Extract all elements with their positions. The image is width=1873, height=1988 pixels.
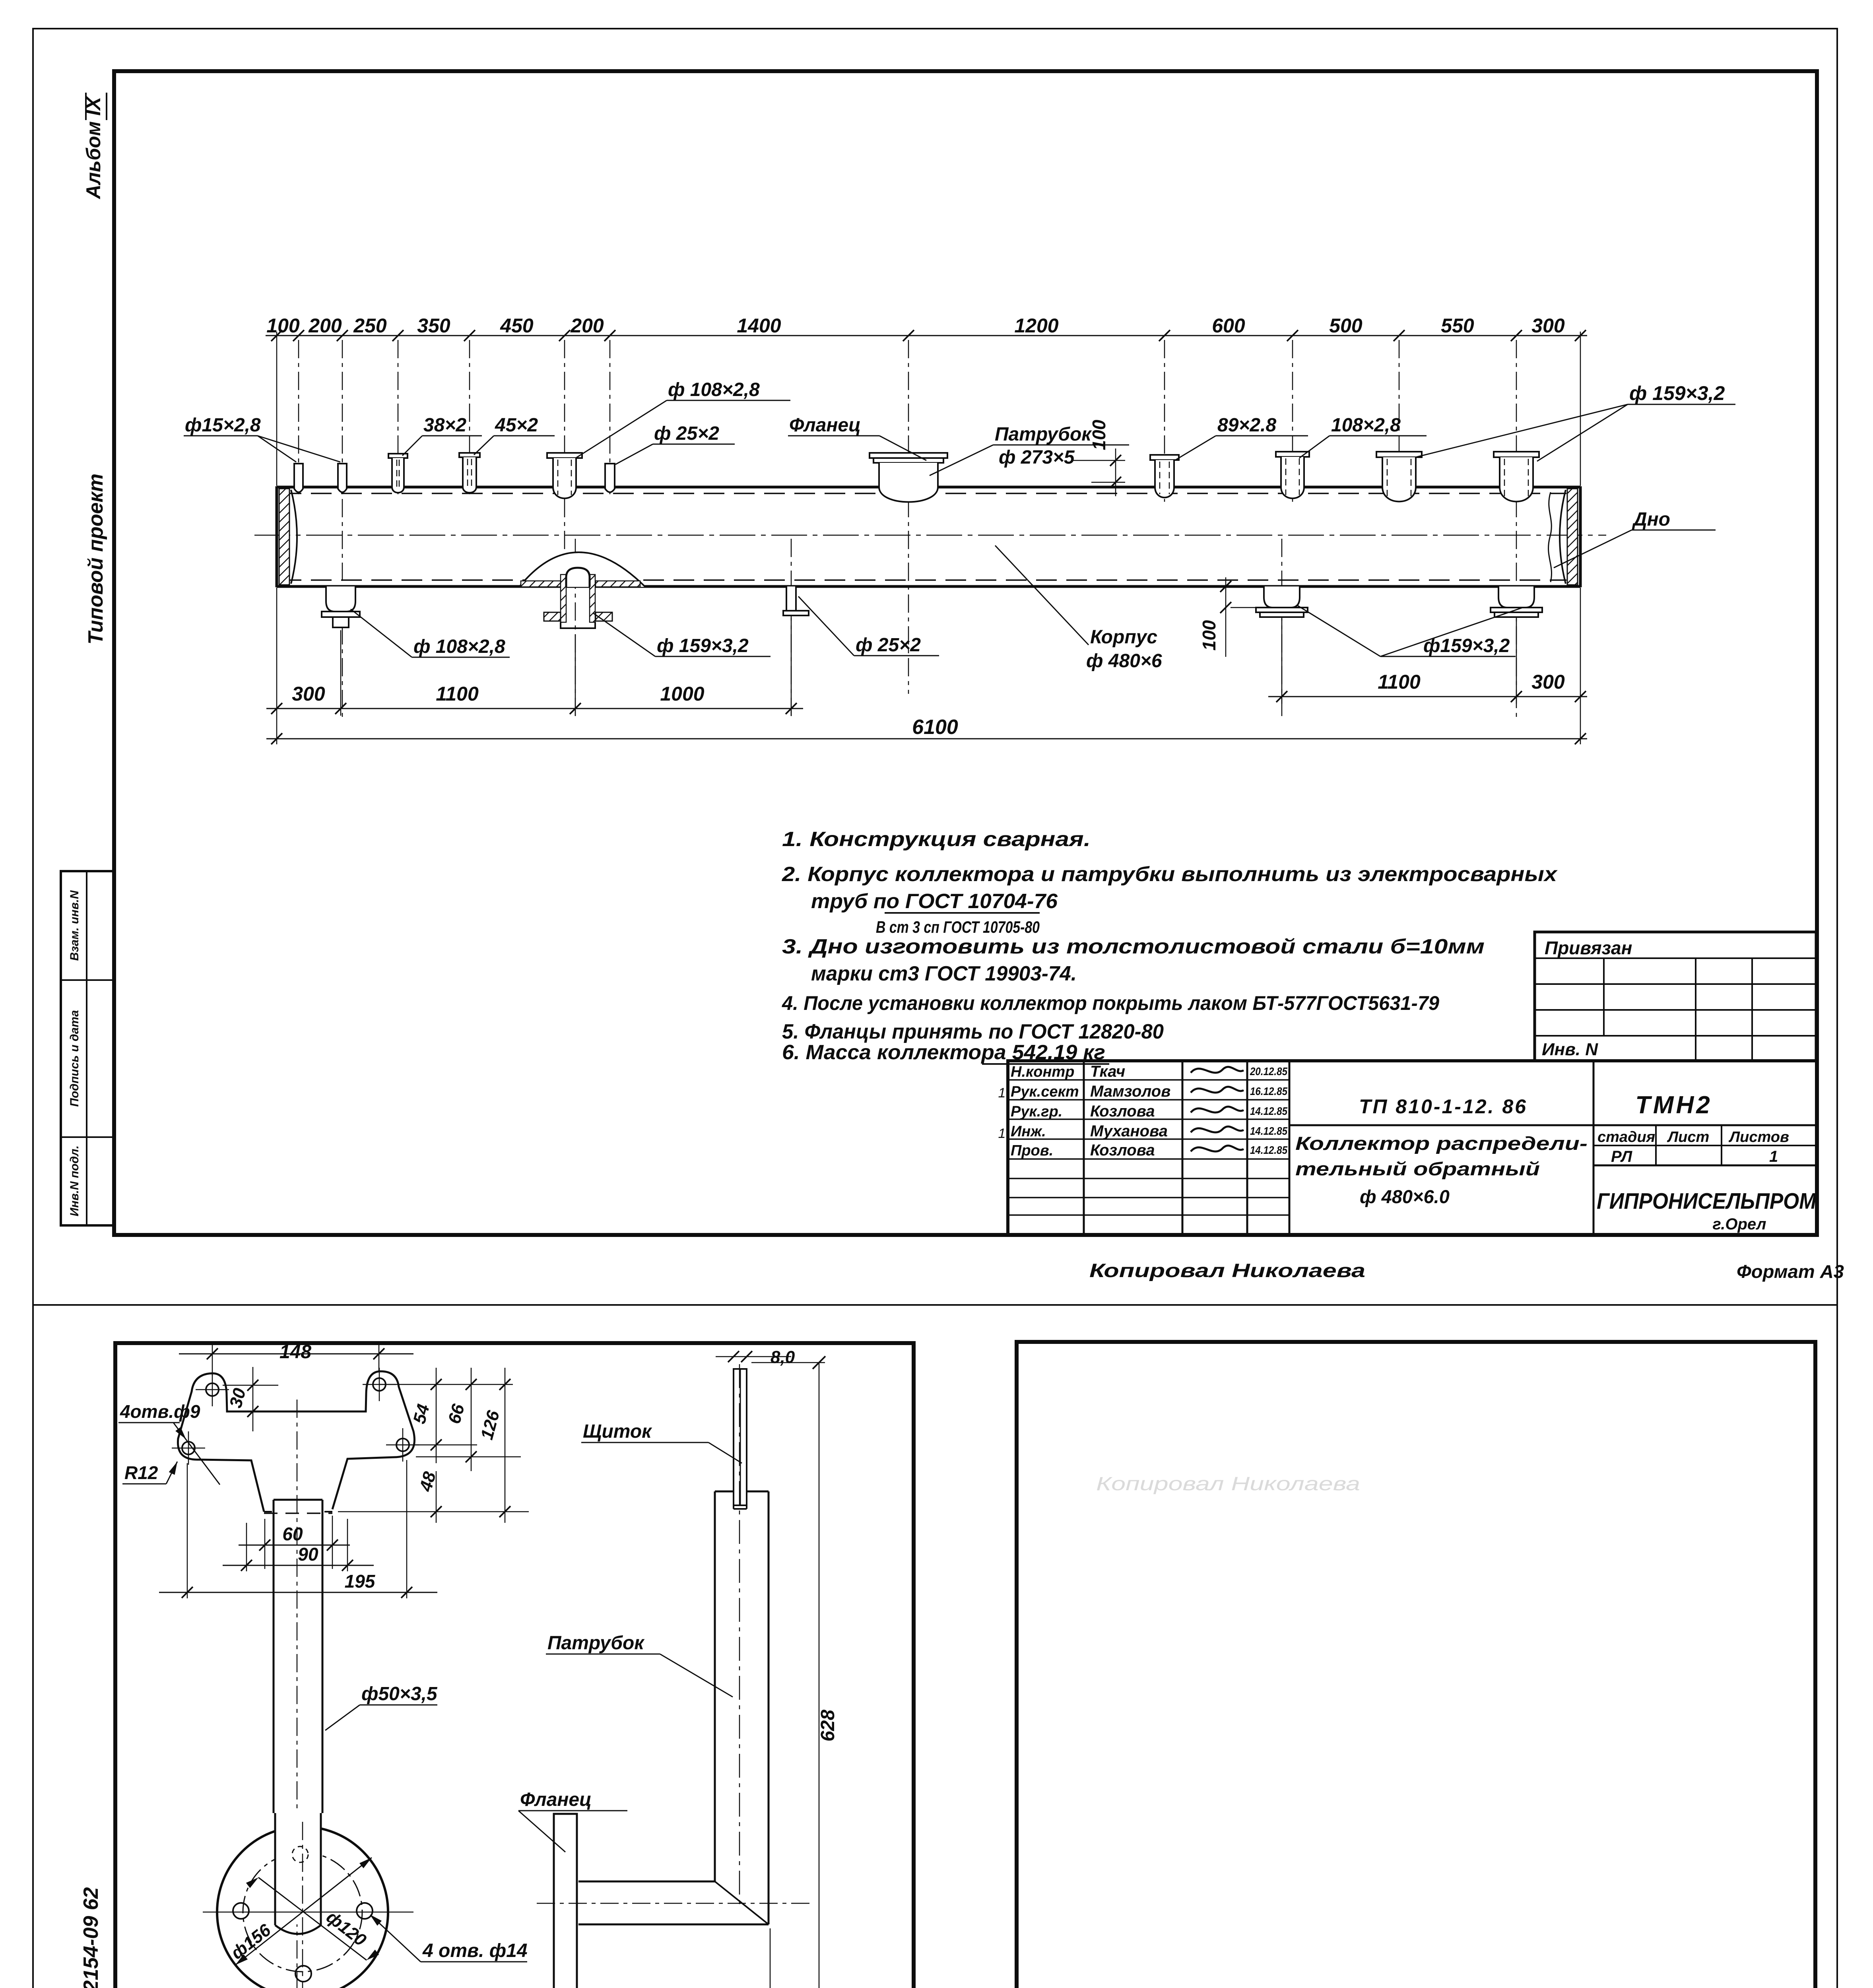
nozzle f159x3.2 bottom right #1 <box>1256 586 1308 617</box>
svg-text:Н.контр: Н.контр <box>1011 1064 1074 1080</box>
svg-text:1000: 1000 <box>660 683 704 705</box>
label f50x3.5 <box>325 1683 438 1730</box>
svg-text:200: 200 <box>308 315 342 337</box>
svg-text:100: 100 <box>266 315 300 337</box>
title block top sheet <box>1008 1061 1817 1235</box>
label f159x3.2 top <box>1415 382 1735 461</box>
svg-text:Привязан: Привязан <box>1545 938 1632 958</box>
svg-text:ф50×3,5: ф50×3,5 <box>361 1683 438 1705</box>
svg-text:89×2.8: 89×2.8 <box>1217 415 1276 436</box>
footer top sheet <box>1089 1260 1844 1282</box>
label 38x2 <box>402 415 482 456</box>
svg-text:ф 273×5: ф 273×5 <box>999 447 1075 468</box>
collector pipe body f480x6 <box>277 487 1580 586</box>
svg-text:1200: 1200 <box>1014 315 1058 337</box>
patrubok horizontal channel <box>578 1881 769 1924</box>
label 108x2.8 <box>1299 415 1427 458</box>
svg-text:195: 195 <box>345 1571 376 1592</box>
svg-text:300: 300 <box>292 683 325 705</box>
dimension 30 <box>223 1367 278 1431</box>
tube f50x3.5 <box>274 1500 322 1813</box>
svg-text:14.12.85: 14.12.85 <box>1250 1105 1287 1117</box>
svg-text:Козлова: Козлова <box>1090 1103 1155 1120</box>
svg-text:3. Дно изготовить из толсто: 3. Дно изготовить из толстолистовой стал… <box>782 935 1485 958</box>
svg-text:Инж.: Инж. <box>1011 1123 1046 1140</box>
svg-text:108×2,8: 108×2,8 <box>1331 415 1401 436</box>
svg-text:ф 480×6: ф 480×6 <box>1086 650 1162 672</box>
label Patrubok side <box>546 1633 733 1697</box>
shield plate (schitok) <box>734 1369 747 1505</box>
flange bolt holes f14 <box>233 1846 373 1982</box>
svg-text:R12: R12 <box>124 1462 158 1483</box>
svg-text:600: 600 <box>1212 315 1245 337</box>
svg-text:Фланец: Фланец <box>789 415 861 436</box>
svg-text:500: 500 <box>1329 315 1363 337</box>
svg-text:ф 480×6.0: ф 480×6.0 <box>1360 1186 1450 1207</box>
title block document number <box>1359 1095 1528 1118</box>
bracket plate outline <box>178 1371 414 1512</box>
svg-text:Дно: Дно <box>1632 509 1670 530</box>
svg-text:20.12.85: 20.12.85 <box>1250 1065 1287 1077</box>
svg-text:ф 159×3,2: ф 159×3,2 <box>1629 382 1725 404</box>
svg-text:Взам. инв.N: Взам. инв.N <box>68 890 81 961</box>
label 4otv f14 <box>370 1914 528 1962</box>
svg-text:Рук.гр.: Рук.гр. <box>1011 1103 1062 1120</box>
patrubok vertical channel <box>715 1491 769 1924</box>
svg-text:250: 250 <box>353 315 387 337</box>
strip label Podpis i data <box>68 1010 81 1107</box>
margin label Album IX <box>82 93 107 200</box>
strip label Vzam inv N <box>68 890 81 961</box>
dimension 195 <box>159 1460 437 1598</box>
svg-text:Муханова: Муханова <box>1090 1122 1168 1140</box>
svg-text:8,0: 8,0 <box>771 1347 795 1367</box>
svg-text:Копировал Николаева: Копировал Николаева <box>1096 1474 1360 1495</box>
nozzle f159x3.2 top #2 <box>1494 452 1539 501</box>
flange diagonal f156 <box>227 1858 372 1965</box>
svg-text:Рук.сект: Рук.сект <box>1011 1083 1079 1100</box>
nozzle f25x2 bottom <box>783 586 809 615</box>
svg-text:Ткач: Ткач <box>1090 1063 1125 1080</box>
svg-text:Щиток: Щиток <box>583 1421 652 1442</box>
svg-text:350: 350 <box>417 315 450 337</box>
svg-text:Корпус: Корпус <box>1090 627 1157 648</box>
svg-text:4. После установки коллектор: 4. После установки коллектор покрыть лак… <box>782 992 1439 1014</box>
top sheet frame A3 <box>114 71 1817 1235</box>
dimension 628 <box>751 1356 838 1988</box>
label Korpus f480x6 <box>995 546 1162 672</box>
flange bolt circle <box>243 1852 362 1972</box>
dimension 275 <box>548 1928 791 1988</box>
top dimension numbers <box>266 315 1565 337</box>
bottom left dimension chain <box>266 618 803 716</box>
pipe right dished end (dno) <box>1549 486 1580 587</box>
svg-text:марки ст3 ГОСТ 19903-74.: марки ст3 ГОСТ 19903-74. <box>811 962 1077 985</box>
technical notes <box>782 828 1558 1064</box>
label Schitok <box>581 1421 742 1463</box>
svg-text:ф 108×2,8: ф 108×2,8 <box>668 379 760 400</box>
svg-text:14.12.85: 14.12.85 <box>1250 1144 1287 1156</box>
svg-text:Патрубок: Патрубок <box>547 1633 645 1654</box>
margin code 2154-09 62 <box>80 1887 103 1988</box>
svg-text:Копировал Николаева: Копировал Николаева <box>1089 1260 1365 1281</box>
label 45x2 <box>474 415 555 455</box>
svg-text:1: 1 <box>998 1126 1006 1141</box>
svg-text:ф 25×2: ф 25×2 <box>654 423 719 444</box>
nozzle 38x2 <box>388 454 408 493</box>
svg-text:г.Орел: г.Орел <box>1712 1215 1766 1233</box>
dimension 60 <box>239 1516 350 1569</box>
svg-text:200: 200 <box>570 315 604 337</box>
svg-text:Подпись и дата: Подпись и дата <box>68 1010 81 1107</box>
nozzle 108x2.8 <box>1276 452 1309 498</box>
margin label Tipovoy proekt <box>84 474 107 645</box>
label f25x2 top <box>615 423 735 464</box>
nozzle f108x2.8 top <box>547 453 582 498</box>
svg-text:РЛ: РЛ <box>1611 1148 1633 1165</box>
title block stage row <box>1597 1129 1789 1165</box>
svg-text:1. Конструкция сварная.: 1. Конструкция сварная. <box>782 828 1091 851</box>
label f108x2.8 bottom <box>351 609 510 657</box>
svg-text:100: 100 <box>1199 620 1219 650</box>
title block code TMH2 <box>1635 1091 1712 1119</box>
svg-text:90: 90 <box>298 1544 318 1565</box>
label Flanec side <box>518 1789 627 1852</box>
svg-text:1400: 1400 <box>737 315 781 337</box>
title block organization <box>1597 1188 1817 1233</box>
svg-text:ТП 810-1-12. 86: ТП 810-1-12. 86 <box>1359 1095 1528 1118</box>
label 4otv f9 <box>118 1401 220 1485</box>
vertical dimension 100 bottom <box>1199 577 1262 657</box>
flange disc <box>217 1827 388 1988</box>
svg-text:2154-09 62: 2154-09 62 <box>80 1887 103 1988</box>
svg-text:450: 450 <box>500 315 534 337</box>
svg-text:4 отв. ф14: 4 отв. ф14 <box>422 1940 528 1961</box>
faint copy note <box>1096 1474 1360 1495</box>
nozzle 89x2.8 <box>1150 455 1179 497</box>
dimension 8.0 <box>716 1347 795 1367</box>
label f25x2 bottom <box>798 596 939 656</box>
svg-text:14.12.85: 14.12.85 <box>1250 1125 1287 1137</box>
svg-text:100: 100 <box>1089 419 1109 450</box>
svg-text:16.12.85: 16.12.85 <box>1250 1085 1287 1097</box>
bracket centerline vertical <box>297 1400 298 1988</box>
bottom right dimension chain <box>1268 619 1587 704</box>
label f15x2.8 <box>184 415 340 462</box>
svg-text:Козлова: Козлова <box>1090 1142 1155 1159</box>
svg-text:ГИПРОНИСЕЛЬПРОМ: ГИПРОНИСЕЛЬПРОМ <box>1597 1188 1817 1214</box>
nozzle f159x3.2 bottom right #2 <box>1491 586 1542 617</box>
vertical dimension 100 top <box>1073 419 1125 496</box>
svg-text:тельный обратный: тельный обратный <box>1295 1158 1540 1179</box>
bracket slot and hidden line <box>264 1512 332 1513</box>
svg-text:550: 550 <box>1441 315 1474 337</box>
pipe left dished end (dno) <box>277 486 297 587</box>
svg-text:ф 108×2,8: ф 108×2,8 <box>413 636 505 657</box>
svg-text:300: 300 <box>1531 671 1565 693</box>
svg-text:2. Корпус коллектора и патрубк: 2. Корпус коллектора и патрубки выполнит… <box>782 863 1558 886</box>
svg-text:ф 25×2: ф 25×2 <box>856 635 921 656</box>
nozzle f15x2.8 #1 <box>294 464 303 492</box>
nozzle f15x2.8 #2 <box>338 464 347 492</box>
label f159x3.2 bottom right <box>1297 605 1523 656</box>
strip label Inv N podl <box>68 1145 81 1216</box>
svg-text:38×2: 38×2 <box>423 415 466 436</box>
svg-text:Инв.N подл.: Инв.N подл. <box>68 1145 81 1216</box>
svg-text:148: 148 <box>279 1342 311 1363</box>
privyazan table top sheet <box>1535 932 1816 1061</box>
nozzle f159x3.2 bottom cut-through <box>519 552 645 628</box>
svg-text:628: 628 <box>817 1710 838 1741</box>
svg-text:ф15×2,8: ф15×2,8 <box>185 415 261 436</box>
svg-text:6100: 6100 <box>912 716 958 739</box>
tube over flange <box>275 1813 321 1934</box>
svg-text:1100: 1100 <box>1378 671 1421 693</box>
svg-text:Типовой проект: Типовой проект <box>84 474 107 645</box>
svg-text:1: 1 <box>998 1085 1006 1101</box>
title block signatures top sheet <box>998 1063 1288 1159</box>
pipe horizontal centerline <box>254 535 1606 536</box>
top dimension chain line <box>266 330 1587 486</box>
nozzle f25x2 top <box>605 464 615 492</box>
nozzle f159x3.2 top #1 <box>1376 452 1422 501</box>
title block drawing name <box>1295 1133 1588 1207</box>
dimension 148 <box>179 1342 413 1376</box>
left strip table top sheet <box>61 871 113 1225</box>
nozzle centerlines <box>299 340 1516 720</box>
svg-text:45×2: 45×2 <box>495 415 538 436</box>
nozzle 45x2 <box>459 453 480 493</box>
svg-text:Фланец: Фланец <box>520 1789 592 1810</box>
svg-text:ТМН2: ТМН2 <box>1635 1091 1712 1119</box>
svg-text:Листов: Листов <box>1728 1129 1789 1145</box>
svg-text:Мамзолов: Мамзолов <box>1090 1083 1170 1100</box>
svg-text:В ст 3 сп ГОСТ 10705-80: В ст 3 сп ГОСТ 10705-80 <box>876 918 1040 936</box>
svg-text:Лист: Лист <box>1667 1129 1709 1145</box>
svg-text:труб по ГОСТ 10704-76: труб по ГОСТ 10704-76 <box>811 890 1058 913</box>
svg-text:Инв. N: Инв. N <box>1542 1040 1598 1059</box>
label Flanec <box>788 415 926 460</box>
dimensions 54 66 126 48 <box>338 1368 529 1523</box>
flange side view <box>554 1814 577 1988</box>
label Patrubok f273x5 <box>930 424 1129 476</box>
label Dno <box>1554 509 1716 568</box>
label 89x2.8 <box>1176 415 1308 460</box>
svg-text:стадия: стадия <box>1597 1129 1655 1145</box>
svg-text:300: 300 <box>1531 315 1565 337</box>
dimension 90 <box>223 1519 374 1571</box>
svg-text:1: 1 <box>1769 1148 1778 1165</box>
side view centerlines <box>537 1364 811 1908</box>
svg-text:1100: 1100 <box>436 683 479 705</box>
bottom-right sheet frame A4 <box>1017 1342 1815 1988</box>
svg-text:4отв.ф9: 4отв.ф9 <box>120 1401 200 1422</box>
overall dimension 6100 <box>266 588 1587 744</box>
nozzle patrubok f273x5 with flange <box>870 453 947 502</box>
svg-text:ф 159×3,2: ф 159×3,2 <box>657 635 749 656</box>
label f108x2.8 top <box>576 379 790 458</box>
svg-text:5. Фланцы принять по ГОСТ: 5. Фланцы принять по ГОСТ 12820-80 <box>782 1020 1164 1043</box>
svg-text:Коллектор распредели-: Коллектор распредели- <box>1295 1133 1588 1154</box>
label f159x3.2 bottom <box>593 613 771 656</box>
svg-text:Формат А3: Формат А3 <box>1737 1261 1844 1282</box>
svg-text:Патрубок: Патрубок <box>995 424 1092 445</box>
svg-text:ф159×3,2: ф159×3,2 <box>1423 635 1510 656</box>
bottom-left sheet frame A4 <box>115 1343 914 1988</box>
label R12 <box>122 1462 177 1484</box>
bracket holes f9 <box>172 1368 419 1465</box>
nozzle f108x2.8 bottom <box>322 586 360 627</box>
svg-text:Пров.: Пров. <box>1011 1142 1053 1159</box>
flange centerlines <box>203 1822 413 1988</box>
flange diagonal f120 <box>246 1877 379 1960</box>
svg-text:60: 60 <box>282 1524 303 1544</box>
